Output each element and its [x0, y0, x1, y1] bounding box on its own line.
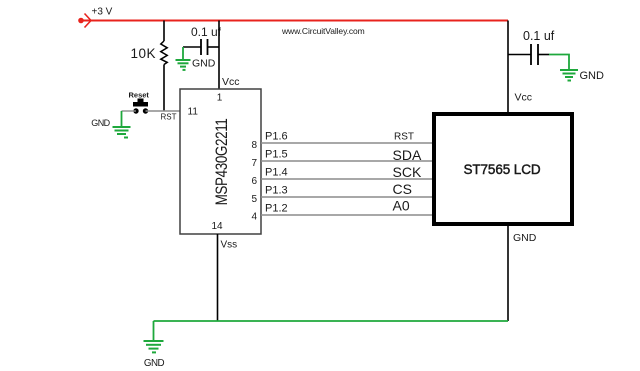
wire P1.6 / RST net [261, 142, 432, 144]
wire RST net button to IC pin 11 [146, 110, 181, 112]
wire rail to LCD Vcc [507, 21, 509, 113]
ground net wire (bottom, green) [154, 320, 509, 322]
wire P1.5 / SDA net [261, 160, 432, 162]
pushbutton Reset [133, 99, 148, 114]
svg-text:RST: RST [394, 132, 414, 143]
svg-text:6: 6 [251, 176, 257, 187]
svg-text:A0: A0 [393, 198, 410, 214]
svg-text:11: 11 [188, 107, 199, 118]
svg-text:+3 V: +3 V [92, 7, 113, 18]
svg-text:P1.2: P1.2 [265, 203, 288, 215]
svg-text:MSP430G2211: MSP430G2211 [213, 119, 232, 206]
svg-text:P1.6: P1.6 [265, 131, 288, 143]
svg-text:Vcc: Vcc [515, 92, 533, 104]
svg-text:0.1 uf: 0.1 uf [523, 29, 555, 43]
wire IC Vss to ground net [217, 234, 219, 321]
svg-text:SCK: SCK [393, 164, 422, 180]
svg-text:8: 8 [251, 140, 257, 151]
svg-text:GND: GND [513, 232, 537, 244]
wire P1.2 / A0 net [261, 214, 432, 216]
svg-text:P1.3: P1.3 [265, 185, 288, 197]
svg-text:SDA: SDA [393, 147, 422, 163]
wire rail to IC Vcc pin [218, 21, 220, 90]
svg-text:P1.5: P1.5 [265, 149, 288, 161]
ground (Reset button) [113, 111, 131, 138]
svg-text:14: 14 [211, 221, 223, 232]
svg-text:GND: GND [144, 358, 165, 369]
svg-text:Vcc: Vcc [222, 76, 240, 88]
capacitor C1 0.1uf [183, 39, 219, 55]
svg-text:www.CircuitValley.com: www.CircuitValley.com [281, 26, 365, 36]
svg-text:GND: GND [580, 70, 605, 82]
ground (bottom) [144, 321, 164, 352]
ground (C2) [560, 70, 578, 81]
svg-text:0.1 uf: 0.1 uf [191, 25, 222, 39]
svg-text:P1.4: P1.4 [265, 167, 288, 179]
svg-text:Vss: Vss [221, 240, 238, 251]
svg-text:CS: CS [393, 181, 412, 197]
svg-text:1: 1 [217, 93, 223, 104]
resistor R1 10K [161, 41, 167, 65]
svg-text:ST7565 LCD: ST7565 LCD [463, 162, 540, 177]
op-amp U1 MSP430G2211 body [180, 89, 261, 234]
svg-text:4: 4 [251, 212, 257, 223]
svg-text:RST: RST [161, 113, 177, 122]
wire P1.4 / SCK net [261, 178, 432, 180]
wire resistor to RST net [163, 65, 165, 112]
power rail +3V [82, 20, 508, 22]
svg-text:7: 7 [251, 158, 257, 169]
svg-text:5: 5 [251, 194, 257, 205]
svg-text:Reset: Reset [129, 91, 150, 100]
svg-text:10K: 10K [130, 46, 156, 61]
wire C2 to ground [549, 55, 569, 70]
wire button to ground corner [122, 110, 137, 112]
power arrow terminal [78, 14, 91, 28]
svg-text:GND: GND [192, 58, 216, 70]
capacitor C2 0.1uf [508, 44, 549, 65]
ground (C1) [176, 47, 191, 70]
LCD module ST7565 [434, 114, 572, 224]
wire LCD GND to ground net [507, 225, 509, 321]
wire rail to resistor R1 [163, 21, 165, 42]
svg-text:GND: GND [91, 118, 110, 128]
wire P1.3 / CS net [261, 196, 432, 198]
